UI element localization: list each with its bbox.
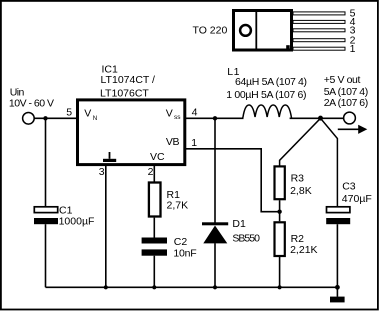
svg-text:R3: R3 <box>291 173 305 185</box>
svg-text:3: 3 <box>99 166 105 178</box>
svg-text:ss: ss <box>174 114 181 121</box>
svg-text:2A (107 6): 2A (107 6) <box>324 97 368 109</box>
svg-text:V: V <box>84 108 91 120</box>
svg-text:C2: C2 <box>174 236 188 248</box>
svg-text:LT1074CT /: LT1074CT / <box>101 74 156 86</box>
svg-text:LT1076CT: LT1076CT <box>100 87 149 99</box>
svg-text:2,7K: 2,7K <box>167 200 189 212</box>
svg-text:1000µF: 1000µF <box>59 216 95 228</box>
svg-text:2,21K: 2,21K <box>290 244 317 256</box>
svg-text:470µF: 470µF <box>342 193 372 205</box>
svg-text:VC: VC <box>150 151 165 163</box>
svg-text:+5 V out: +5 V out <box>324 74 361 86</box>
svg-text:C3: C3 <box>342 181 356 193</box>
svg-text:10V - 60 V: 10V - 60 V <box>9 98 54 110</box>
svg-text:V: V <box>166 107 173 119</box>
svg-text:10nF: 10nF <box>173 248 196 260</box>
svg-text:2: 2 <box>148 166 154 178</box>
svg-text:5: 5 <box>66 106 72 118</box>
svg-text:1 00µH 5A (107 6): 1 00µH 5A (107 6) <box>226 89 306 101</box>
svg-text:N: N <box>93 115 97 122</box>
svg-text:R2: R2 <box>291 233 305 245</box>
svg-text:2,8K: 2,8K <box>290 185 312 197</box>
svg-text:SB550: SB550 <box>232 232 260 244</box>
svg-text:TO 220: TO 220 <box>193 25 228 37</box>
svg-text:D1: D1 <box>232 218 246 230</box>
svg-text:1: 1 <box>350 43 356 55</box>
svg-text:4: 4 <box>192 107 198 119</box>
svg-text:1: 1 <box>191 137 197 149</box>
svg-text:VB: VB <box>166 136 180 148</box>
svg-text:64µH 5A (107 4): 64µH 5A (107 4) <box>235 76 307 88</box>
